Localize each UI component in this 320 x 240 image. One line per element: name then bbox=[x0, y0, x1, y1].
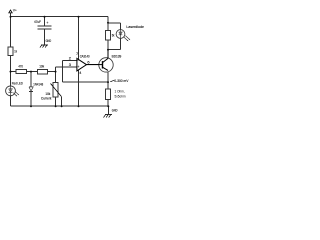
svg-text:1 Ohm,: 1 Ohm, bbox=[115, 89, 125, 94]
svg-text:470: 470 bbox=[18, 64, 23, 69]
svg-text:BD139: BD139 bbox=[112, 54, 122, 59]
svg-text:10k: 10k bbox=[45, 91, 50, 96]
svg-text:Current: Current bbox=[41, 96, 52, 101]
svg-text:0-300 mV: 0-300 mV bbox=[114, 78, 128, 83]
svg-text:10k: 10k bbox=[39, 63, 44, 68]
svg-text:6: 6 bbox=[87, 59, 89, 64]
svg-text:CA3140: CA3140 bbox=[80, 54, 90, 59]
svg-text:V+: V+ bbox=[13, 7, 17, 12]
svg-text:Laserdiode: Laserdiode bbox=[126, 24, 144, 29]
svg-text:5k: 5k bbox=[112, 32, 115, 37]
svg-text:47uF: 47uF bbox=[34, 19, 41, 24]
svg-text:Red LED: Red LED bbox=[12, 80, 23, 85]
svg-text:2: 2 bbox=[69, 56, 71, 61]
svg-text:1N4148: 1N4148 bbox=[33, 81, 43, 86]
svg-text:3: 3 bbox=[69, 62, 71, 67]
svg-text:GND: GND bbox=[112, 107, 118, 112]
svg-text:1k: 1k bbox=[14, 48, 17, 53]
svg-text:GND: GND bbox=[46, 38, 52, 43]
svg-text:5x5ohm: 5x5ohm bbox=[115, 94, 126, 99]
svg-text:7: 7 bbox=[76, 51, 78, 56]
